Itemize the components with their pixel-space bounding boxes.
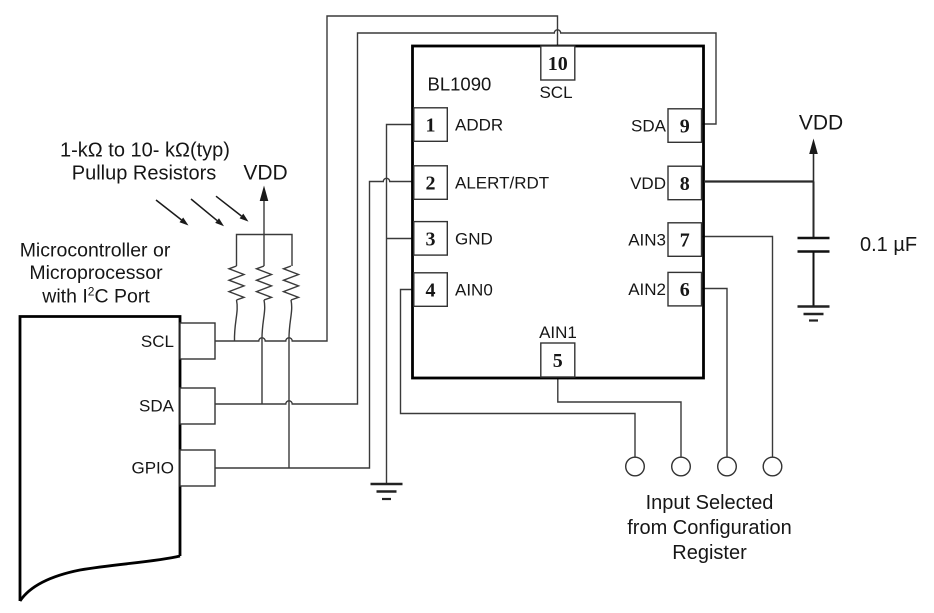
svg-text:Microcontroller or: Microcontroller or	[20, 239, 171, 261]
svg-text:AIN3: AIN3	[628, 231, 666, 250]
svg-text:ALERT/RDT: ALERT/RDT	[455, 174, 549, 193]
microcontroller label	[20, 239, 171, 307]
ground symbol left	[371, 484, 403, 499]
wire VDD net	[704, 153, 814, 238]
svg-text:SCL: SCL	[539, 83, 572, 102]
svg-text:GND: GND	[455, 229, 493, 248]
pin 5 AIN1	[539, 323, 577, 377]
annotation arrow 2	[191, 199, 224, 226]
input terminal circle 2	[672, 457, 691, 476]
svg-text:1-kΩ to 10- kΩ(typ): 1-kΩ to 10- kΩ(typ)	[60, 140, 230, 162]
input terminal circle 3	[718, 457, 737, 476]
wire AIN2 net	[702, 289, 728, 458]
pin 9 SDA	[631, 109, 701, 143]
annotation pullup resistors	[60, 140, 230, 185]
svg-text:Input Selected: Input Selected	[646, 492, 774, 514]
resistor R3	[284, 266, 299, 468]
svg-text:AIN2: AIN2	[628, 280, 666, 299]
svg-text:4: 4	[426, 280, 436, 302]
MCU pin SCL	[141, 323, 215, 359]
svg-text:SDA: SDA	[631, 117, 667, 136]
svg-text:Microprocessor: Microprocessor	[29, 262, 163, 284]
svg-text:8: 8	[680, 173, 690, 195]
wire SCL net	[215, 16, 558, 341]
pin 1 ADDR	[414, 108, 503, 142]
svg-text:9: 9	[680, 116, 690, 138]
MCU pin GPIO	[131, 450, 215, 486]
svg-text:from Configuration: from Configuration	[627, 517, 792, 539]
wire AIN0 net	[401, 290, 636, 458]
input terminal circle 4	[763, 457, 782, 476]
svg-text:AIN0: AIN0	[455, 281, 493, 300]
svg-text:VDD: VDD	[243, 162, 287, 185]
wire GPIO to ALERT net	[215, 178, 414, 468]
microcontroller block U2	[20, 317, 180, 602]
svg-text:6: 6	[680, 279, 690, 301]
ground symbol right	[798, 307, 830, 321]
pullup rail wire	[237, 235, 293, 267]
input terminal circle 1	[626, 457, 645, 476]
svg-text:5: 5	[553, 350, 563, 372]
VDD supply arrow left	[243, 162, 287, 267]
pin 3 GND	[414, 222, 493, 256]
wire AIN3 net	[702, 237, 773, 458]
svg-text:0.1 µF: 0.1 µF	[860, 234, 917, 256]
pin 2 ALERT/RDT	[414, 166, 549, 200]
wire SDA net	[215, 30, 716, 404]
svg-text:7: 7	[680, 230, 690, 252]
MCU pin SDA	[139, 388, 215, 424]
svg-text:VDD: VDD	[799, 112, 843, 135]
svg-text:Register: Register	[672, 542, 747, 564]
pin 10 SCL	[539, 46, 574, 102]
pin 7 AIN3	[628, 223, 701, 256]
wire ADDR to GND net	[387, 125, 414, 485]
annotation arrow 3	[216, 196, 249, 221]
pin 4 AIN0	[414, 273, 493, 307]
svg-text:GPIO: GPIO	[131, 459, 174, 478]
pin 8 VDD	[630, 166, 701, 200]
svg-text:SCL: SCL	[141, 332, 174, 351]
annotation arrow 1	[156, 200, 189, 226]
IC U1 BL1090	[413, 46, 704, 378]
wire AIN1 net	[558, 377, 681, 457]
resistor R1	[229, 266, 244, 341]
svg-text:Pullup Resistors: Pullup Resistors	[72, 163, 217, 185]
svg-text:1: 1	[426, 115, 436, 137]
svg-text:BL1090: BL1090	[428, 74, 492, 95]
svg-text:10: 10	[548, 53, 568, 75]
VDD supply arrow right	[799, 112, 843, 155]
svg-text:with I2C Port: with I2C Port	[41, 284, 150, 307]
capacitor C1 0.1uF	[798, 238, 830, 307]
svg-text:VDD: VDD	[630, 174, 666, 193]
svg-text:SDA: SDA	[139, 397, 175, 416]
resistor R2	[257, 266, 272, 404]
svg-text:AIN1: AIN1	[539, 323, 577, 342]
svg-text:3: 3	[426, 228, 436, 250]
svg-text:ADDR: ADDR	[455, 116, 503, 135]
svg-text:2: 2	[426, 173, 436, 195]
annotation input selected	[627, 492, 792, 564]
pin 6 AIN2	[628, 272, 701, 306]
